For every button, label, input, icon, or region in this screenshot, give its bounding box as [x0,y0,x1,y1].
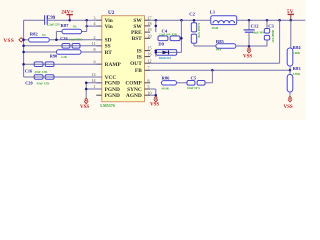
svg-text:LM5576: LM5576 [100,103,114,108]
junction SW pins tie [155,19,158,22]
svg-text:OUT: OUT [130,61,142,67]
wire SS row [24,45,102,47]
svg-text:3: 3 [94,15,96,20]
capacitor C3 [266,19,269,22]
wire OUT sense vertical [279,20,281,63]
wire RAMP row [24,63,102,65]
U2 left pin 2 [96,39,102,41]
capacitor C26 [62,44,70,49]
svg-text:R90: R90 [50,54,57,59]
wire IS pins vertical [155,51,157,57]
U2 left pin 14 [96,82,102,84]
capacitor C16 [34,62,43,67]
svg-text:49.9: 49.9 [216,48,222,52]
svg-text:NC: NC [73,24,77,28]
svg-text:49.9K: 49.9K [162,86,170,90]
svg-text:12: 12 [148,58,152,63]
resistor R82 [29,38,50,42]
svg-text:19: 19 [148,27,152,32]
svg-text:C99: C99 [47,16,56,21]
wire SW output row [150,19,211,21]
svg-text:C26: C26 [60,36,68,41]
svg-text:R85: R85 [216,39,225,44]
svg-text:14: 14 [92,78,96,83]
svg-text:FB: FB [135,68,142,74]
svg-text:SW: SW [133,24,142,30]
resistor R83 [289,70,291,74]
wire R83 to ground [289,92,291,96]
svg-text:17: 17 [148,15,152,20]
svg-text:22uF 10V X5R: 22uF 10V X5R [159,33,178,37]
svg-text:C12: C12 [251,24,260,29]
wire SW pins vertical [155,20,157,32]
U2 left pin 4 [96,25,102,27]
svg-text:SYNC: SYNC [127,87,142,93]
junction bus SS row [22,45,25,48]
svg-text:C20: C20 [25,80,32,85]
svg-text:VSS: VSS [243,55,252,60]
svg-text:R86: R86 [162,75,171,80]
U2 left pin 8 [96,51,102,53]
svg-text:RAMP: RAMP [105,62,122,68]
U2 left pin pad [96,94,102,96]
svg-text:10: 10 [148,90,152,95]
junction SD node [55,39,58,42]
svg-text:PGND: PGND [105,87,120,93]
svg-text:1.00K: 1.00K [293,51,301,55]
svg-text:R87: R87 [61,23,70,28]
junction OUT sense vertical [278,19,281,22]
U2 left pin 11 [96,45,102,47]
wire pin4 row [87,25,102,27]
svg-text:4.99K: 4.99K [293,72,301,76]
wire VCC row [24,76,102,78]
U2 right pin 7 [145,69,151,71]
svg-text:0.47uF X7R: 0.47uF X7R [197,23,201,39]
junction R87 top [85,19,88,22]
wire OUT long line [150,62,279,64]
port diamond VSS [19,38,24,42]
svg-text:68uF/10V: 68uF/10V [252,30,265,34]
U2 right pin 5 [145,88,151,90]
junction bus SD row [22,39,25,42]
svg-text:COMP: COMP [125,81,142,87]
PGND ground drop [86,82,102,84]
U2 right pin 10 [145,94,151,96]
svg-text:20: 20 [148,33,152,38]
resistor R86 [162,81,177,85]
ground VSS under PGND [85,98,87,99]
U2 right pin 18 [145,25,151,27]
junction bus RT row [22,51,25,54]
svg-text:Vin: Vin [105,24,113,30]
svg-text:10nF 10%: 10nF 10% [187,86,200,90]
wire C2 bottom to R85 [193,43,195,46]
svg-text:BST: BST [132,36,143,42]
svg-text:47nF X7R: 47nF X7R [35,70,49,74]
svg-text:C2: C2 [189,11,195,16]
svg-text:R83: R83 [293,66,302,71]
svg-text:RT: RT [105,50,113,56]
U2 left pin 3 [96,19,102,21]
svg-text:C16: C16 [25,69,33,74]
wire R82 to SD pin 2 [49,39,102,41]
svg-text:16: 16 [148,52,152,57]
svg-text:2.2K: 2.2K [61,55,68,59]
capacitor C20 [34,75,43,80]
resistor R90 [57,50,82,54]
U2 right pin 19 [145,31,151,33]
svg-text:C5: C5 [191,75,197,80]
svg-text:18: 18 [148,21,152,26]
svg-text:DSSK310: DSSK310 [159,56,172,60]
svg-text:7: 7 [148,65,150,70]
svg-text:D9: D9 [158,42,164,47]
junction 24V+ stem [68,19,71,22]
junction pin4/R87 vertical [85,25,88,28]
wire VSS to R82 [24,39,29,41]
U2 left pin 1 [96,88,102,90]
diode D9 [156,51,182,53]
svg-text:IS: IS [137,55,142,61]
capacitor C99 [44,15,46,25]
junction FB comp branch [211,69,214,72]
U2 left pin 9 [96,63,102,65]
svg-text:9: 9 [94,59,96,64]
svg-text:6: 6 [148,78,150,83]
U2 right pin 6 [145,82,151,84]
wire BST-D9 vertical [180,20,182,52]
ground VSS under R85 [248,47,250,48]
svg-text:C3: C3 [268,24,274,29]
U2 left pin 13 [96,76,102,78]
svg-text:47uH: 47uH [211,26,219,30]
svg-text:13: 13 [92,72,96,77]
junction bus RAMP row [22,63,25,66]
junction BST/D9 vertical top [180,19,183,22]
svg-text:R84: R84 [293,45,302,50]
resistor R85 [216,44,236,48]
svg-text:SS: SS [105,44,111,50]
svg-text:PGND: PGND [105,81,120,87]
wire output row after L1 [237,19,306,21]
svg-text:8: 8 [94,47,96,52]
wire RT row [24,51,102,53]
svg-text:PRE: PRE [131,30,142,36]
svg-text:47nF X7R: 47nF X7R [37,82,51,86]
wire FB long line [150,69,290,71]
junction FB divider [289,69,292,72]
capacitor C5 [187,81,195,86]
svg-text:VSS: VSS [3,38,14,44]
ground VSS under R83 [289,96,291,97]
IC U2 LM5576 body [102,16,145,102]
svg-text:2.2nF/25V: 2.2nF/25V [47,22,61,26]
junction C12 bottom [248,45,251,48]
wire Vin row from C99 to pin 3 [47,19,102,21]
U2 right pin 12 [145,62,151,64]
svg-text:1: 1 [94,84,96,89]
U2 right pin 17 [145,19,151,21]
svg-text:VSS: VSS [80,105,89,110]
svg-text:5: 5 [148,84,150,89]
svg-text:L1: L1 [210,9,216,14]
capacitor C4 bootstrap [158,36,168,41]
resistor R87 [82,31,87,33]
U2 right pin 15 [145,50,151,52]
svg-text:10nF NPO: 10nF NPO [69,37,83,41]
junction C4 right [180,37,183,40]
svg-text:2: 2 [94,35,96,40]
ground VSS under AGND [155,96,157,97]
wire comp branch vertical [211,70,213,83]
svg-text:100uF/16V: 100uF/16V [271,30,275,44]
svg-text:PGND: PGND [105,93,120,99]
wire C99 left lead to bus corner [24,19,45,21]
svg-text:AGND: AGND [126,93,142,99]
U2 right pin 16 [145,56,151,58]
resistor R84 [290,20,292,48]
svg-text:R82: R82 [30,32,39,37]
wire SYNC/AGND to ground [150,88,156,90]
svg-text:11: 11 [92,41,96,46]
wire R85 right to VSS junction [236,45,267,47]
svg-text:VSS: VSS [150,103,159,108]
svg-text:15: 15 [148,46,152,51]
wire R87 right vertical [86,20,88,31]
svg-text:VSS: VSS [284,105,293,110]
svg-text:U2: U2 [108,10,115,16]
left VSS bus vertical [23,20,25,77]
wire R87 left drop to SD node [55,32,57,40]
U2 right pin 20 [145,37,151,39]
svg-text:NC: NC [42,33,46,37]
svg-text:4: 4 [94,21,96,26]
capacitor C12 polarized [248,19,251,22]
